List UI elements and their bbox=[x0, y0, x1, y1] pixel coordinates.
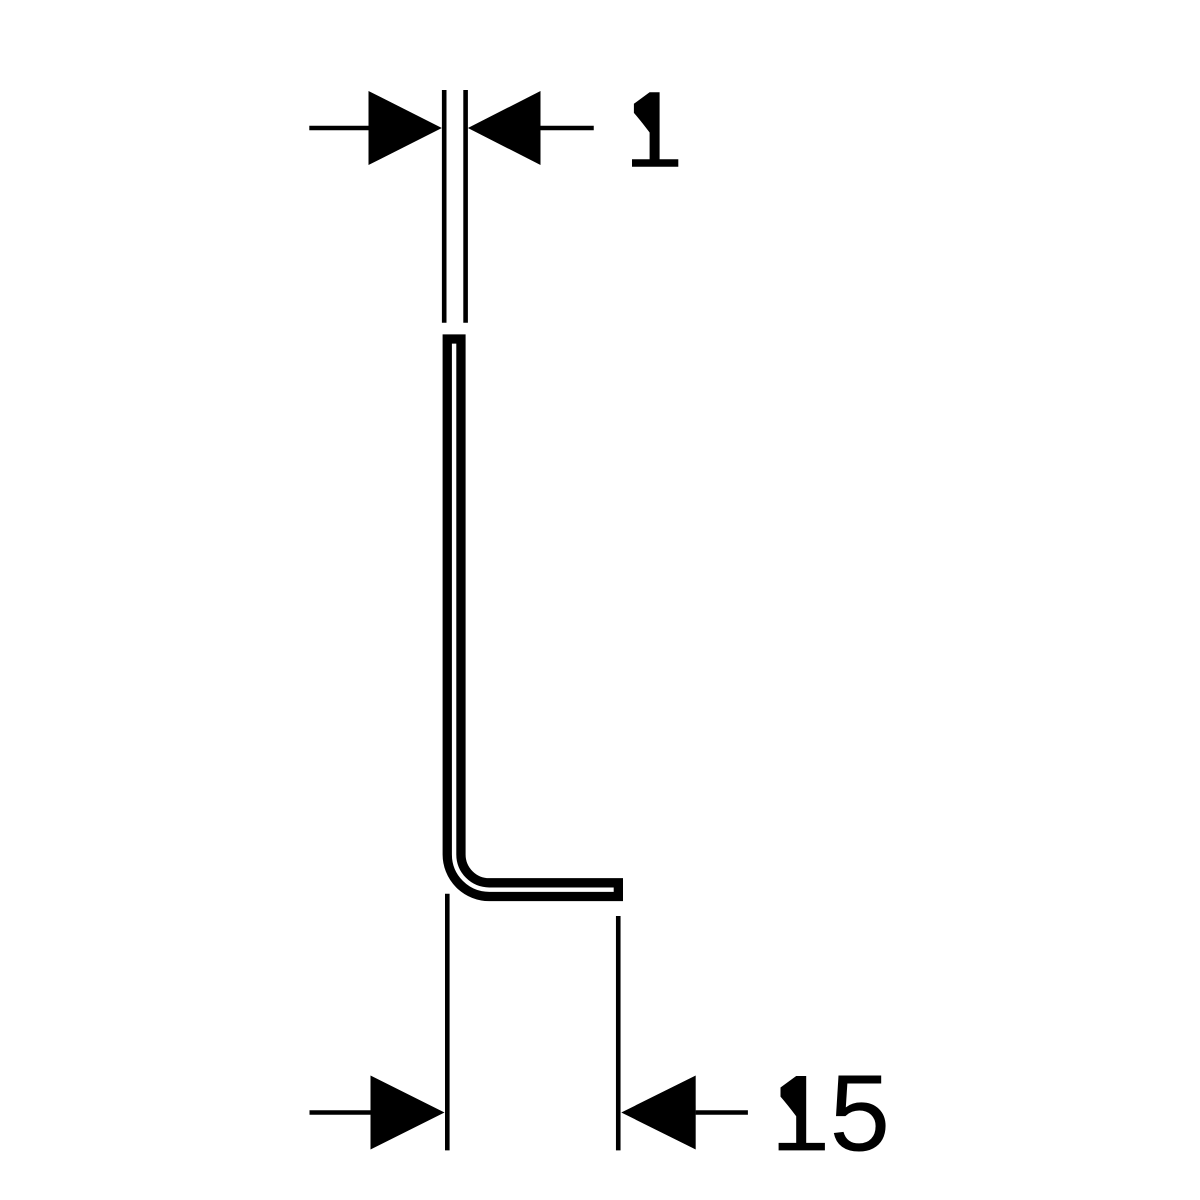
dimension text 1 bbox=[632, 92, 678, 166]
dimension leader top-right bbox=[540, 126, 594, 131]
dimension leader bottom-left bbox=[310, 1110, 372, 1115]
L-profile sheet cross-section bbox=[447, 339, 618, 897]
arrowhead bottom-right bbox=[621, 1076, 695, 1150]
arrowhead top-left bbox=[369, 91, 442, 165]
dimension leader top-left bbox=[309, 126, 370, 131]
dimension text 15 : digit 5 bbox=[827, 1058, 893, 1185]
arrowhead top-right bbox=[468, 91, 541, 165]
dimension text 15 : digit 1 bbox=[779, 1076, 825, 1150]
svg-text:5: 5 bbox=[827, 1058, 893, 1185]
dimension leader bottom-right bbox=[696, 1110, 748, 1115]
extension line top-right (thickness datum) bbox=[463, 90, 468, 323]
extension line bottom-left (leg datum) bbox=[445, 894, 450, 1151]
arrowhead bottom-left bbox=[371, 1076, 445, 1150]
extension line top-left (thickness datum) bbox=[442, 90, 447, 323]
extension line bottom-right (leg datum) bbox=[616, 916, 621, 1150]
